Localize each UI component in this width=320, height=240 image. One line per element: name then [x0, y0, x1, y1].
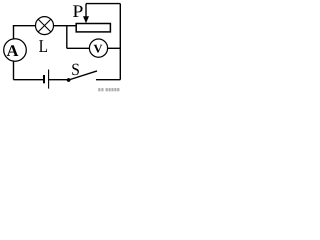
svg-text:A: A	[7, 41, 19, 60]
wire voltmeter left	[67, 47, 91, 49]
svg-text:S: S	[71, 60, 80, 79]
switch S1 arm	[69, 71, 97, 80]
battery B1 positive plate	[48, 70, 50, 89]
svg-text:P: P	[72, 1, 83, 21]
wire left vertical lower	[13, 60, 15, 80]
wire top left horizontal	[13, 25, 37, 27]
svg-text:L: L	[39, 36, 48, 56]
wire junction to rheostat	[67, 25, 77, 27]
wire right vertical	[119, 4, 121, 80]
wire battery to switch	[49, 79, 69, 81]
wire left vertical upper	[13, 26, 15, 41]
wire bottom left to battery	[14, 79, 44, 81]
rheostat slider arrow	[83, 4, 89, 24]
wire slider top horizontal	[86, 3, 120, 5]
switch S1 contact dot	[67, 78, 71, 82]
wire junction vertical down	[66, 26, 68, 49]
svg-text:V: V	[93, 41, 103, 55]
ammeter A1	[4, 39, 27, 62]
wire lamp to junction	[53, 25, 68, 27]
wire voltmeter right	[107, 47, 121, 49]
lamp L1	[36, 17, 54, 35]
voltmeter V1	[89, 39, 107, 57]
wire bottom right	[96, 79, 120, 81]
rheostat R1	[76, 24, 110, 32]
battery B1 negative plate	[43, 75, 45, 83]
